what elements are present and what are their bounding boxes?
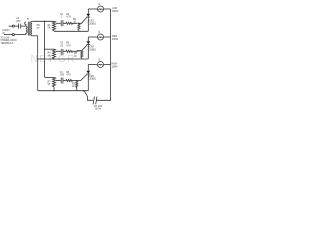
plug prong 2	[96, 97, 97, 105]
label SCR1 C106B1	[88, 21, 97, 26]
label R6 1K	[74, 53, 78, 58]
label SCR3 C106B1	[88, 76, 97, 81]
svg-text:4.7K: 4.7K	[66, 75, 71, 77]
wire gate1 diagonal	[79, 17, 87, 23]
resistor R8	[63, 79, 76, 81]
wiper arrow R1	[57, 22, 61, 24]
wire input top	[9, 25, 13, 27]
wire bottom terminal to T1	[14, 34, 26, 36]
SCR1	[87, 14, 91, 17]
rail stage1	[54, 30, 88, 32]
SCR2 cathode wire	[87, 45, 89, 60]
resistor R2	[63, 22, 78, 24]
svg-text:LOW: LOW	[112, 8, 118, 10]
label R5 4.7K	[66, 43, 71, 48]
wire left bus vertical	[37, 36, 39, 91]
terminal top	[12, 25, 14, 27]
transformer T1 core	[28, 22, 30, 36]
wiper arrow R4	[57, 50, 61, 52]
wire gate2 diagonal	[77, 45, 87, 51]
resistor R3 vertical	[78, 23, 80, 31]
text TO LOW POWER AUDIO SIGNAL TERMINALS	[1, 37, 17, 44]
svg-text:4.7K: 4.7K	[66, 45, 71, 47]
svg-text:C106B1: C106B1	[88, 49, 97, 51]
wire SCR1 to lamp I1	[88, 8, 97, 10]
svg-text:SCR1: SCR1	[88, 21, 95, 23]
wire bus to pot2 top	[45, 48, 53, 50]
svg-text:MED: MED	[112, 36, 117, 38]
svg-text:5K: 5K	[48, 84, 51, 86]
svg-text:.005: .005	[60, 75, 65, 77]
node rail2 bus junction	[37, 58, 38, 59]
node pot2 rail junction	[53, 58, 54, 59]
text AUDIO IN	[2, 29, 9, 35]
resistor R9 vertical	[76, 81, 78, 91]
SCR3 cathode wire	[87, 74, 89, 91]
wire lamp I3 to right bus	[104, 64, 111, 66]
capacitor C1	[19, 24, 21, 29]
capacitor C2	[61, 20, 63, 26]
svg-text:8Ω: 8Ω	[37, 25, 40, 27]
svg-text:(.05): (.05)	[16, 21, 21, 23]
resistor R6 vertical	[77, 51, 83, 59]
svg-text:SCR3: SCR3	[88, 76, 95, 78]
svg-text:HIGH: HIGH	[112, 64, 118, 66]
wire right bus	[96, 9, 110, 100]
lamp I1	[98, 6, 104, 12]
label R1 5K	[48, 25, 52, 30]
svg-text:5K: 5K	[48, 55, 51, 57]
node bus top junction	[44, 21, 45, 22]
svg-text:4.7K: 4.7K	[66, 17, 71, 19]
wire SCR2 to lamp I2	[88, 36, 97, 38]
SCR3	[87, 71, 91, 74]
node gate3 junction	[76, 80, 77, 81]
wire lamp I2 to right bus	[104, 36, 111, 38]
wire bus to pot3 top	[45, 76, 53, 78]
svg-text:150W: 150W	[112, 66, 119, 68]
plug prong 1	[93, 97, 94, 105]
transformer T1 secondary coil	[31, 21, 32, 36]
label R8 4.7K	[66, 72, 71, 77]
SCR1 anode wire	[87, 9, 89, 14]
SCR3 anode wire	[87, 65, 89, 71]
lamp I3	[98, 62, 104, 68]
svg-text:1K: 1K	[73, 22, 76, 24]
wiper arrow R7	[57, 80, 61, 82]
label C3 .02	[60, 43, 64, 48]
svg-text:150W: 150W	[112, 39, 119, 41]
wire terminal to C1	[14, 25, 18, 27]
potentiometer R1	[52, 21, 55, 31]
node pot3 rail junction	[53, 90, 54, 91]
node gate2 junction	[77, 50, 78, 51]
node bus pot2 junction	[44, 49, 45, 50]
lamp I2	[98, 34, 104, 40]
node gate1 junction	[78, 23, 79, 24]
svg-text:60 Hz: 60 Hz	[95, 108, 102, 110]
svg-text:117 VAC: 117 VAC	[94, 105, 103, 108]
rail stage2	[38, 58, 89, 60]
wire signal bus vertical	[44, 21, 46, 77]
wire T1 secondary top to pot R1	[32, 20, 54, 22]
text LOW 150W	[112, 8, 119, 13]
label T1 secondary impedance	[37, 25, 41, 30]
svg-text:TO LOW: TO LOW	[1, 37, 11, 39]
wire lamp I1 to right bus	[104, 8, 111, 10]
wire T1 secondary bottom	[32, 35, 38, 37]
svg-text:AUDIO: AUDIO	[2, 29, 9, 32]
label R2 4.7K	[66, 14, 71, 19]
svg-text:POWER AUDIO: POWER AUDIO	[1, 39, 17, 42]
label R4 5K	[48, 53, 52, 58]
svg-text:1K: 1K	[72, 86, 75, 88]
resistor R5	[63, 50, 78, 52]
svg-text:SCR2: SCR2	[88, 47, 95, 49]
fuse F1	[83, 91, 87, 97]
label SCR2 C106B1	[88, 47, 97, 52]
potentiometer R4	[52, 49, 55, 59]
label R3 1K	[73, 19, 77, 24]
svg-text:TERMINALS: TERMINALS	[1, 42, 14, 45]
text HIGH 150W	[112, 64, 119, 69]
svg-text:150W: 150W	[112, 11, 119, 13]
text 117 VAC	[94, 105, 103, 111]
rail stage3	[38, 90, 89, 92]
node fuse junction	[83, 90, 84, 91]
text MED 150W	[112, 36, 119, 41]
wire C1 to T1	[21, 25, 26, 27]
label C4 .005	[60, 72, 65, 77]
SCR1 cathode wire	[87, 17, 89, 31]
SCR2 anode wire	[87, 37, 89, 41]
label C1 .05	[16, 18, 21, 23]
wire gate3 diagonal	[76, 74, 87, 80]
wire input bottom	[4, 34, 12, 36]
label C2 .1	[60, 14, 64, 19]
svg-text:C106B1: C106B1	[88, 23, 97, 25]
potentiometer R7	[52, 77, 55, 90]
label R9 1K	[72, 83, 76, 88]
capacitor C4	[61, 78, 63, 84]
wire SCR3 to lamp I3	[88, 64, 97, 66]
SCR2	[87, 41, 91, 44]
wire fuse to plug	[88, 96, 93, 100]
capacitor C3	[61, 49, 63, 55]
svg-text:1K: 1K	[74, 56, 77, 58]
transformer T1 primary coil	[25, 22, 27, 35]
label R7 5K	[48, 82, 52, 87]
svg-text:C106B1: C106B1	[88, 79, 97, 81]
terminal bottom	[12, 34, 14, 36]
svg-text:5K: 5K	[48, 28, 51, 30]
